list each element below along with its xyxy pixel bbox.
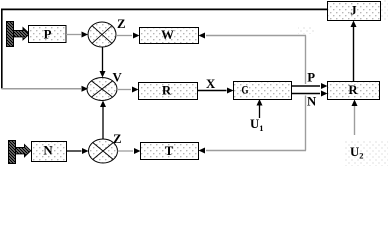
block P <box>29 26 67 43</box>
wire J-output left vertical <box>1 9 3 89</box>
wire R to G, node X <box>198 90 227 92</box>
wall anchor top-left <box>7 22 30 47</box>
wire junction Z2 to T <box>118 150 134 152</box>
svg-text:P: P <box>44 27 52 41</box>
svg-text:Z: Z <box>113 132 122 146</box>
wire input U2 into R right <box>354 106 356 135</box>
wire R right up to J <box>353 27 355 81</box>
svg-text:J: J <box>350 3 357 17</box>
svg-text:V: V <box>113 71 123 85</box>
svg-text:X: X <box>206 77 216 91</box>
block R right <box>328 82 380 100</box>
summing junction V <box>87 78 117 101</box>
svg-text:W: W <box>161 28 174 42</box>
block R middle <box>139 83 198 100</box>
wall anchor bottom-left <box>9 141 31 164</box>
svg-text:T: T <box>165 144 174 158</box>
background stipple patch bottom-right <box>345 140 388 166</box>
svg-text:N: N <box>307 95 317 109</box>
svg-text:G: G <box>241 83 248 97</box>
summing junction Z2 <box>89 139 118 163</box>
wire feedback vertical upper segment <box>305 36 307 85</box>
svg-text:P: P <box>307 71 315 85</box>
svg-text:N: N <box>43 144 53 158</box>
summing junction Z1 <box>88 22 116 47</box>
wire feedback vertical lower segment <box>305 96 307 151</box>
svg-text:Z: Z <box>117 17 126 31</box>
wire junction Z1 down to junction V <box>102 47 104 71</box>
wire N to junction Z2 <box>67 150 82 152</box>
svg-text:R: R <box>348 83 358 97</box>
block G <box>234 82 292 100</box>
wire P to junction Z1 <box>66 34 81 36</box>
background stipple patch top-right <box>380 0 388 20</box>
svg-text:R: R <box>162 83 172 97</box>
wire G to R right, net P <box>292 85 321 87</box>
wire junction V to R <box>117 89 131 91</box>
wire G to R right, net N <box>292 93 321 95</box>
wire feedback into T <box>206 150 306 152</box>
block N <box>32 142 67 162</box>
wire junction Z1 to W <box>116 35 132 37</box>
block J <box>328 2 381 21</box>
background stipple speckle near feedback corner <box>298 26 315 34</box>
block T <box>141 143 199 160</box>
wire J-output top horizontal <box>1 8 327 10</box>
block W <box>140 28 199 44</box>
wire feedback into W <box>206 35 306 37</box>
wire input U1 into G <box>259 105 261 118</box>
wire junction Z2 up to junction V <box>102 107 104 139</box>
wire into junction V from left <box>2 88 82 90</box>
